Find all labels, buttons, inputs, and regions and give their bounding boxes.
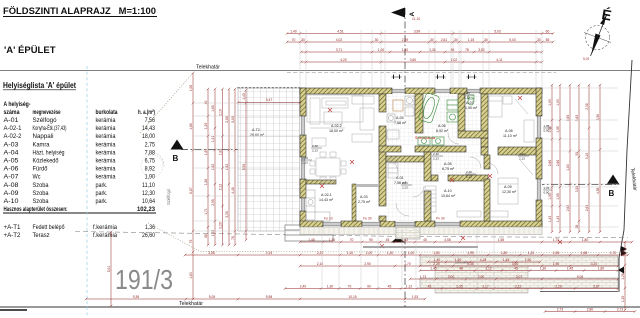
svg-text:30: 30 bbox=[484, 38, 488, 42]
terrace A-T2 bbox=[238, 88, 301, 231]
extension lines bbox=[192, 30, 618, 290]
svg-text:70: 70 bbox=[292, 38, 296, 42]
interior wall corridor/bedroom lower bbox=[481, 138, 488, 147]
corridor south wall west stub bbox=[431, 175, 438, 181]
svg-text:4,55: 4,55 bbox=[596, 187, 600, 194]
svg-text:burkolata: burkolata bbox=[96, 109, 118, 116]
svg-text:2,35: 2,35 bbox=[467, 262, 474, 266]
svg-text:3,22: 3,22 bbox=[515, 284, 522, 288]
wardrobe bedroom A-10 bbox=[425, 186, 481, 217]
svg-text:1,68: 1,68 bbox=[189, 123, 193, 130]
svg-text:A helyiség-: A helyiség- bbox=[4, 101, 31, 108]
svg-text:száma: száma bbox=[4, 109, 21, 116]
svg-text:60: 60 bbox=[546, 29, 550, 33]
svg-text:14,43 m²: 14,43 m² bbox=[319, 198, 334, 202]
svg-text:2,75: 2,75 bbox=[145, 141, 156, 148]
svg-text:4,20: 4,20 bbox=[340, 58, 347, 62]
entry/room10 wall lower bbox=[424, 191, 431, 221]
svg-text:'A' ÉPÜLET: 'A' ÉPÜLET bbox=[4, 45, 56, 56]
svg-text:kerámia: kerámia bbox=[96, 117, 117, 124]
svg-text:A-T2: A-T2 bbox=[252, 128, 260, 132]
top wall segment 3 bbox=[450, 88, 467, 94]
dotted neighbour diagonal top-left bbox=[140, 74, 192, 133]
svg-text:2,35: 2,35 bbox=[456, 284, 463, 288]
svg-text:2,90: 2,90 bbox=[364, 262, 371, 266]
terrace door/window in left wall 2 bbox=[301, 157, 305, 179]
svg-text:2,13: 2,13 bbox=[302, 160, 308, 164]
svg-text:2,10: 2,10 bbox=[219, 109, 223, 116]
svg-text:FÖLDSZINTI ALAPRAJZ M=1:100: FÖLDSZINTI ALAPRAJZ M=1:100 bbox=[3, 6, 156, 16]
bottom dimension row 1 bbox=[299, 241, 634, 244]
svg-text:1,73: 1,73 bbox=[420, 275, 427, 279]
svg-text:kerámia: kerámia bbox=[96, 141, 117, 148]
bath south wall west part bbox=[379, 146, 401, 152]
dotted neighbour line bbox=[148, 223, 628, 253]
svg-text:1,93: 1,93 bbox=[548, 99, 552, 106]
svg-text:2,20: 2,20 bbox=[433, 262, 440, 266]
svg-text:2,88: 2,88 bbox=[225, 116, 229, 123]
lintel mark bbox=[463, 91, 474, 99]
partition pantry top bbox=[356, 184, 379, 187]
bottom dimension row 4 bbox=[409, 278, 620, 281]
svg-text:102,23: 102,23 bbox=[137, 206, 156, 213]
opening in bottom wall 1 bbox=[323, 222, 341, 226]
svg-text:Hasznos alapterület összesen:: Hasznos alapterület összesen: bbox=[4, 206, 68, 213]
svg-text:1,28: 1,28 bbox=[621, 273, 625, 280]
bottom wall segment 2 bbox=[341, 221, 362, 227]
svg-text:3,20: 3,20 bbox=[591, 262, 598, 266]
svg-text:1,58: 1,58 bbox=[581, 251, 588, 255]
right wall segment 2 bbox=[536, 138, 542, 179]
svg-text:4,18: 4,18 bbox=[480, 258, 487, 262]
terrace door/window in left wall 3 bbox=[301, 198, 305, 211]
svg-text:3,60: 3,60 bbox=[512, 262, 519, 266]
top dimension row 3 bbox=[300, 51, 544, 54]
svg-text:5,98: 5,98 bbox=[266, 295, 273, 299]
svg-text:Közlekedő: Közlekedő bbox=[33, 158, 60, 165]
red marker bbox=[558, 240, 562, 244]
svg-text:1,00: 1,00 bbox=[189, 85, 193, 92]
svg-text:1,30: 1,30 bbox=[387, 251, 394, 255]
svg-text:45: 45 bbox=[514, 266, 518, 270]
section line B-B (stepped, dash-dot) bbox=[181, 150, 618, 185]
svg-text:1,40: 1,40 bbox=[290, 29, 297, 33]
svg-text:48: 48 bbox=[459, 266, 463, 270]
bottom wall segment 4 bbox=[415, 221, 435, 227]
svg-text:2,66: 2,66 bbox=[548, 160, 552, 167]
window height mark bbox=[543, 186, 552, 194]
svg-text:2,20: 2,20 bbox=[555, 284, 562, 288]
red marker bbox=[328, 108, 332, 112]
left wall segment 2 bbox=[300, 135, 306, 157]
svg-text:park.: park. bbox=[96, 198, 108, 205]
svg-text:1,95: 1,95 bbox=[467, 251, 474, 255]
svg-text:4,11: 4,11 bbox=[496, 58, 502, 62]
svg-text:7,88 m²: 7,88 m² bbox=[394, 121, 407, 125]
building outer walls bbox=[300, 88, 542, 227]
bottom dimension row 3a bbox=[427, 261, 542, 264]
svg-text:1,02: 1,02 bbox=[451, 58, 458, 62]
svg-text:9,36: 9,36 bbox=[133, 295, 140, 299]
svg-text:4,51: 4,51 bbox=[337, 29, 344, 33]
svg-text:Fürdő: Fürdő bbox=[33, 166, 49, 173]
partition kitchen south bbox=[306, 180, 336, 184]
interior wall stub lower bbox=[379, 216, 386, 221]
svg-text:1,93: 1,93 bbox=[412, 295, 419, 299]
svg-text:1,00: 1,00 bbox=[366, 251, 373, 255]
svg-text:1,90: 1,90 bbox=[553, 262, 560, 266]
svg-text:A-02-2: A-02-2 bbox=[331, 124, 342, 128]
svg-text:Házt. helyiség: Házt. helyiség bbox=[33, 149, 65, 156]
left dimension column 7 bbox=[245, 89, 248, 242]
svg-text:12,30: 12,30 bbox=[142, 190, 156, 197]
bottom dimension row 3 bbox=[299, 265, 620, 268]
svg-text:1,12: 1,12 bbox=[402, 238, 409, 242]
gate swing arc bbox=[150, 152, 164, 166]
svg-text:1,60: 1,60 bbox=[402, 48, 409, 52]
svg-text:1,90: 1,90 bbox=[204, 149, 208, 156]
svg-text:1,15: 1,15 bbox=[468, 38, 475, 42]
red marker bbox=[450, 178, 454, 182]
entry north wall bbox=[386, 156, 424, 162]
left dimension column 2 bbox=[207, 88, 210, 247]
svg-text:f.kerámia: f.kerámia bbox=[93, 224, 118, 231]
bottom dimension row 2 bbox=[184, 254, 630, 257]
bathroom fixtures (green) bbox=[418, 93, 458, 145]
svg-text:1,36: 1,36 bbox=[145, 224, 156, 231]
svg-text:1,05: 1,05 bbox=[556, 126, 560, 133]
bottom wall segment 5 bbox=[460, 221, 542, 227]
top wall segment 1 bbox=[300, 88, 392, 94]
svg-text:+A-T2: +A-T2 bbox=[4, 232, 22, 239]
svg-text:10,15: 10,15 bbox=[348, 295, 356, 299]
svg-text:3,47: 3,47 bbox=[266, 98, 273, 102]
left dimension column 1 bbox=[192, 72, 195, 301]
svg-text:2,73: 2,73 bbox=[617, 307, 624, 311]
interior wall utility/bath bbox=[415, 94, 423, 133]
interior wall living/kitchen mid bbox=[379, 126, 386, 206]
svg-text:3,35: 3,35 bbox=[225, 211, 229, 218]
svg-text:85: 85 bbox=[451, 48, 455, 52]
svg-text:A-06: A-06 bbox=[4, 166, 20, 173]
bedroom divider west stub bbox=[481, 147, 488, 155]
svg-text:1,63: 1,63 bbox=[189, 272, 193, 279]
sidewalk band 1 bbox=[420, 256, 618, 266]
svg-text:1,48: 1,48 bbox=[308, 238, 315, 242]
left wall segment 1 bbox=[300, 88, 306, 116]
svg-text:Konyha-Étk.(37,43): Konyha-Étk.(37,43) bbox=[33, 125, 67, 132]
svg-text:2,13: 2,13 bbox=[464, 95, 470, 99]
svg-text:1,65: 1,65 bbox=[211, 105, 215, 112]
svg-text:2,63: 2,63 bbox=[585, 205, 589, 212]
top dimension row 4 bbox=[300, 61, 544, 64]
bathroom tiled floor bbox=[386, 94, 481, 146]
svg-text:1,31: 1,31 bbox=[211, 136, 215, 143]
svg-text:2,05: 2,05 bbox=[211, 199, 215, 206]
interior wall wc/bedroom upper bbox=[481, 94, 488, 131]
left dimension column 6 bbox=[234, 88, 237, 247]
svg-text:8,87: 8,87 bbox=[189, 187, 193, 194]
svg-text:8,92 m²: 8,92 m² bbox=[436, 129, 449, 133]
svg-text:1,90: 1,90 bbox=[525, 258, 532, 262]
entry hall tiled floor bbox=[386, 162, 424, 221]
svg-text:Szoba: Szoba bbox=[33, 190, 50, 197]
svg-text:kerámia: kerámia bbox=[96, 158, 117, 165]
svg-text:Szoba: Szoba bbox=[33, 182, 50, 189]
window in right wall 1 bbox=[537, 116, 541, 138]
svg-text:1,80: 1,80 bbox=[433, 251, 440, 255]
svg-text:78: 78 bbox=[465, 48, 469, 52]
svg-text:90: 90 bbox=[369, 238, 373, 242]
svg-text:3,58: 3,58 bbox=[596, 114, 600, 121]
left dashed service line (cyan) bbox=[86, 66, 88, 318]
svg-text:98: 98 bbox=[204, 234, 208, 238]
svg-text:1,32: 1,32 bbox=[211, 230, 215, 237]
right boundary marks bbox=[621, 246, 627, 256]
svg-text:3,82: 3,82 bbox=[478, 48, 485, 52]
svg-text:45: 45 bbox=[428, 284, 432, 288]
red marker bbox=[380, 244, 384, 248]
interior wall bath/wc bbox=[458, 94, 465, 131]
terrace door/window in left wall 1 bbox=[301, 116, 305, 135]
red marker bbox=[485, 264, 489, 268]
svg-text:1,70: 1,70 bbox=[553, 238, 560, 242]
svg-text:f.kerámia: f.kerámia bbox=[93, 232, 118, 239]
svg-text:1,45: 1,45 bbox=[430, 266, 437, 270]
svg-text:1,30: 1,30 bbox=[329, 238, 336, 242]
svg-text:5,90: 5,90 bbox=[231, 116, 235, 123]
room table bbox=[3, 101, 156, 239]
svg-text:3,58: 3,58 bbox=[208, 251, 215, 255]
svg-text:1,55: 1,55 bbox=[498, 238, 505, 242]
right dimension column 4 bbox=[578, 84, 581, 234]
svg-text:18,00: 18,00 bbox=[142, 133, 156, 140]
svg-text:A-03: A-03 bbox=[4, 141, 20, 148]
svg-text:A-03: A-03 bbox=[360, 195, 368, 199]
opening in bottom wall 3 bbox=[395, 222, 415, 226]
svg-text:2,66: 2,66 bbox=[556, 160, 560, 167]
svg-text:1,20: 1,20 bbox=[204, 123, 208, 130]
svg-text:1,80: 1,80 bbox=[582, 238, 589, 242]
svg-text:2,13: 2,13 bbox=[466, 174, 472, 178]
svg-text:5,03: 5,03 bbox=[583, 57, 589, 61]
red marker bbox=[461, 236, 465, 240]
svg-text:10,64 m²: 10,64 m² bbox=[441, 194, 456, 198]
svg-text:A-08: A-08 bbox=[4, 182, 20, 189]
bed bedroom A-08 bbox=[489, 96, 534, 142]
bath south wall east part bbox=[415, 146, 466, 152]
svg-text:A-05: A-05 bbox=[444, 162, 452, 166]
svg-text:A-01: A-01 bbox=[4, 117, 20, 124]
entry walk bbox=[363, 246, 478, 248]
lintel mark bbox=[401, 181, 412, 189]
svg-text:2,13: 2,13 bbox=[519, 156, 525, 160]
svg-text:2,00: 2,00 bbox=[448, 275, 455, 279]
top plot boundary (Telekhatar) bbox=[0, 70, 640, 72]
svg-text:Fedett belépő: Fedett belépő bbox=[33, 224, 66, 231]
svg-text:2,73: 2,73 bbox=[557, 307, 564, 311]
svg-text:11,10 m²: 11,10 m² bbox=[503, 134, 518, 138]
wc toilet A-07 bbox=[468, 95, 474, 105]
svg-text:Wc: Wc bbox=[33, 174, 41, 181]
svg-text:A-04: A-04 bbox=[396, 116, 404, 120]
svg-text:A-07: A-07 bbox=[4, 174, 20, 181]
svg-text:30: 30 bbox=[454, 38, 458, 42]
svg-text:h. a.(m²): h. a.(m²) bbox=[138, 109, 155, 116]
svg-text:A-04: A-04 bbox=[4, 149, 20, 156]
interior wall living/utility upper bbox=[379, 94, 386, 112]
wc south wall bbox=[458, 131, 488, 138]
svg-text:kerámia: kerámia bbox=[96, 149, 117, 156]
svg-text:A-09: A-09 bbox=[4, 190, 20, 197]
svg-text:0,90: 0,90 bbox=[544, 128, 550, 132]
svg-text:1,30: 1,30 bbox=[327, 284, 334, 288]
bottom dimension row 3b bbox=[419, 269, 620, 272]
red marker bbox=[320, 184, 324, 188]
svg-text:4,48: 4,48 bbox=[231, 187, 235, 194]
svg-text:5,03: 5,03 bbox=[509, 38, 516, 42]
svg-text:1,55: 1,55 bbox=[553, 251, 560, 255]
kitchen counter bbox=[306, 190, 330, 221]
svg-text:A-02-2: A-02-2 bbox=[4, 133, 23, 140]
svg-text:A-09: A-09 bbox=[504, 185, 512, 189]
bed bedroom A-09 bbox=[487, 160, 533, 217]
bottom wall segment 3 bbox=[380, 221, 395, 227]
svg-text:5,55: 5,55 bbox=[242, 164, 246, 171]
far right dimension column bbox=[624, 241, 627, 312]
section flag A top bbox=[391, 8, 405, 18]
svg-text:2,40: 2,40 bbox=[300, 284, 307, 288]
bottom dimension row 5 bbox=[284, 287, 620, 290]
svg-text:2,75 m²: 2,75 m² bbox=[358, 200, 371, 204]
window Pv in top wall 1 bbox=[392, 89, 405, 93]
entry/corridor wall upper bbox=[424, 152, 431, 181]
hall closet bbox=[388, 158, 398, 178]
driveway brick block bbox=[435, 256, 528, 293]
svg-text:78: 78 bbox=[231, 236, 235, 240]
svg-text:Helyiséglista 'A' épület: Helyiséglista 'A' épület bbox=[3, 80, 76, 90]
entrance arrow on section line bbox=[391, 237, 405, 243]
svg-text:70: 70 bbox=[350, 238, 354, 242]
svg-text:2,10: 2,10 bbox=[317, 262, 324, 266]
svg-text:30: 30 bbox=[301, 38, 305, 42]
left dimension column 3 bbox=[214, 88, 217, 247]
svg-text:5,05: 5,05 bbox=[209, 295, 216, 299]
svg-text:1,43: 1,43 bbox=[548, 216, 552, 223]
section flag B right bbox=[607, 175, 620, 185]
right dimension column 3 bbox=[569, 84, 572, 234]
svg-text:30: 30 bbox=[537, 38, 541, 42]
svg-text:3,07: 3,07 bbox=[516, 275, 523, 279]
right wall segment 1 bbox=[536, 88, 542, 116]
svg-text:kerámia: kerámia bbox=[96, 133, 117, 140]
room9/room10 wall bbox=[484, 179, 490, 221]
svg-text:10,64: 10,64 bbox=[142, 198, 156, 205]
lintel mark bbox=[518, 152, 529, 160]
right dimension column 5 bbox=[588, 84, 591, 234]
utility room fixtures bbox=[387, 96, 414, 139]
svg-text:11,10: 11,10 bbox=[142, 182, 156, 189]
svg-text:7,56: 7,56 bbox=[145, 117, 156, 124]
svg-text:26,60 m²: 26,60 m² bbox=[250, 133, 265, 137]
svg-text:1,83: 1,83 bbox=[566, 164, 570, 171]
lintel mark bbox=[311, 144, 322, 152]
svg-text:55: 55 bbox=[546, 38, 550, 42]
svg-text:2,13: 2,13 bbox=[312, 148, 318, 152]
svg-text:1,30: 1,30 bbox=[540, 266, 547, 270]
svg-text:1,80: 1,80 bbox=[219, 149, 223, 156]
svg-text:5,03: 5,03 bbox=[494, 29, 501, 33]
top dimension row 2 bbox=[286, 41, 555, 44]
svg-text:2,20: 2,20 bbox=[317, 251, 324, 255]
svg-text:1,92: 1,92 bbox=[211, 164, 215, 171]
svg-text:0,90: 0,90 bbox=[544, 190, 550, 194]
svg-text:6,75: 6,75 bbox=[145, 158, 156, 165]
svg-text:B: B bbox=[609, 189, 615, 198]
north compass bbox=[583, 6, 613, 61]
svg-text:1,45: 1,45 bbox=[503, 258, 510, 262]
svg-text:1,40: 1,40 bbox=[242, 93, 246, 100]
svg-text:1,20: 1,20 bbox=[621, 296, 625, 303]
corridor south wall east part bbox=[448, 175, 488, 181]
svg-text:5,08: 5,08 bbox=[577, 275, 584, 279]
left dimension column 4 bbox=[221, 88, 224, 247]
svg-text:30: 30 bbox=[430, 38, 434, 42]
svg-text:park.: park. bbox=[96, 182, 108, 189]
svg-text:1,00: 1,00 bbox=[408, 251, 415, 255]
svg-text:75: 75 bbox=[189, 240, 193, 244]
svg-text:A-10: A-10 bbox=[4, 198, 20, 205]
svg-text:11,10: 11,10 bbox=[412, 17, 420, 21]
svg-text:8,92: 8,92 bbox=[145, 166, 156, 173]
svg-text:3,71: 3,71 bbox=[336, 48, 343, 52]
svg-text:2,00: 2,00 bbox=[478, 275, 485, 279]
svg-text:Telekhatár: Telekhatár bbox=[179, 301, 203, 307]
svg-text:40: 40 bbox=[204, 101, 208, 105]
svg-text:1,45: 1,45 bbox=[567, 266, 574, 270]
svg-text:2,61: 2,61 bbox=[441, 38, 448, 42]
svg-text:1,90: 1,90 bbox=[145, 174, 156, 181]
left wall segment 3 bbox=[300, 179, 306, 198]
roof eaves dashed line bbox=[287, 72, 556, 74]
svg-text:191/3: 191/3 bbox=[115, 264, 173, 295]
svg-text:2,20: 2,20 bbox=[219, 222, 223, 229]
svg-text:1,90: 1,90 bbox=[455, 258, 462, 262]
svg-text:70: 70 bbox=[348, 284, 352, 288]
svg-text:A-06: A-06 bbox=[438, 124, 446, 128]
bottom plot boundary bbox=[0, 306, 640, 308]
lintel mark bbox=[465, 170, 476, 178]
svg-text:A-05: A-05 bbox=[4, 158, 20, 165]
svg-text:2,12: 2,12 bbox=[219, 184, 223, 191]
svg-text:45: 45 bbox=[386, 238, 390, 242]
svg-text:2,13: 2,13 bbox=[433, 156, 439, 160]
left dimension column 5 bbox=[228, 88, 231, 247]
svg-text:3,55: 3,55 bbox=[575, 186, 579, 193]
section line A-A (vertical, dash-dot) bbox=[404, 8, 406, 307]
bottom dimension row 7 bbox=[544, 310, 637, 313]
svg-text:2,62: 2,62 bbox=[566, 205, 570, 212]
svg-text:6,75 m²: 6,75 m² bbox=[442, 167, 455, 171]
svg-text:Telekhatár: Telekhatár bbox=[196, 65, 220, 71]
svg-text:1,90 m²: 1,90 m² bbox=[465, 106, 478, 110]
svg-text:18,00 m²: 18,00 m² bbox=[329, 129, 344, 133]
sidewalk band 2 bbox=[420, 278, 618, 288]
svg-text:Szoba: Szoba bbox=[33, 198, 50, 205]
svg-text:Fe 30: Fe 30 bbox=[363, 217, 372, 221]
svg-text:2,13: 2,13 bbox=[402, 185, 408, 189]
right wall segment 3 bbox=[536, 200, 542, 227]
